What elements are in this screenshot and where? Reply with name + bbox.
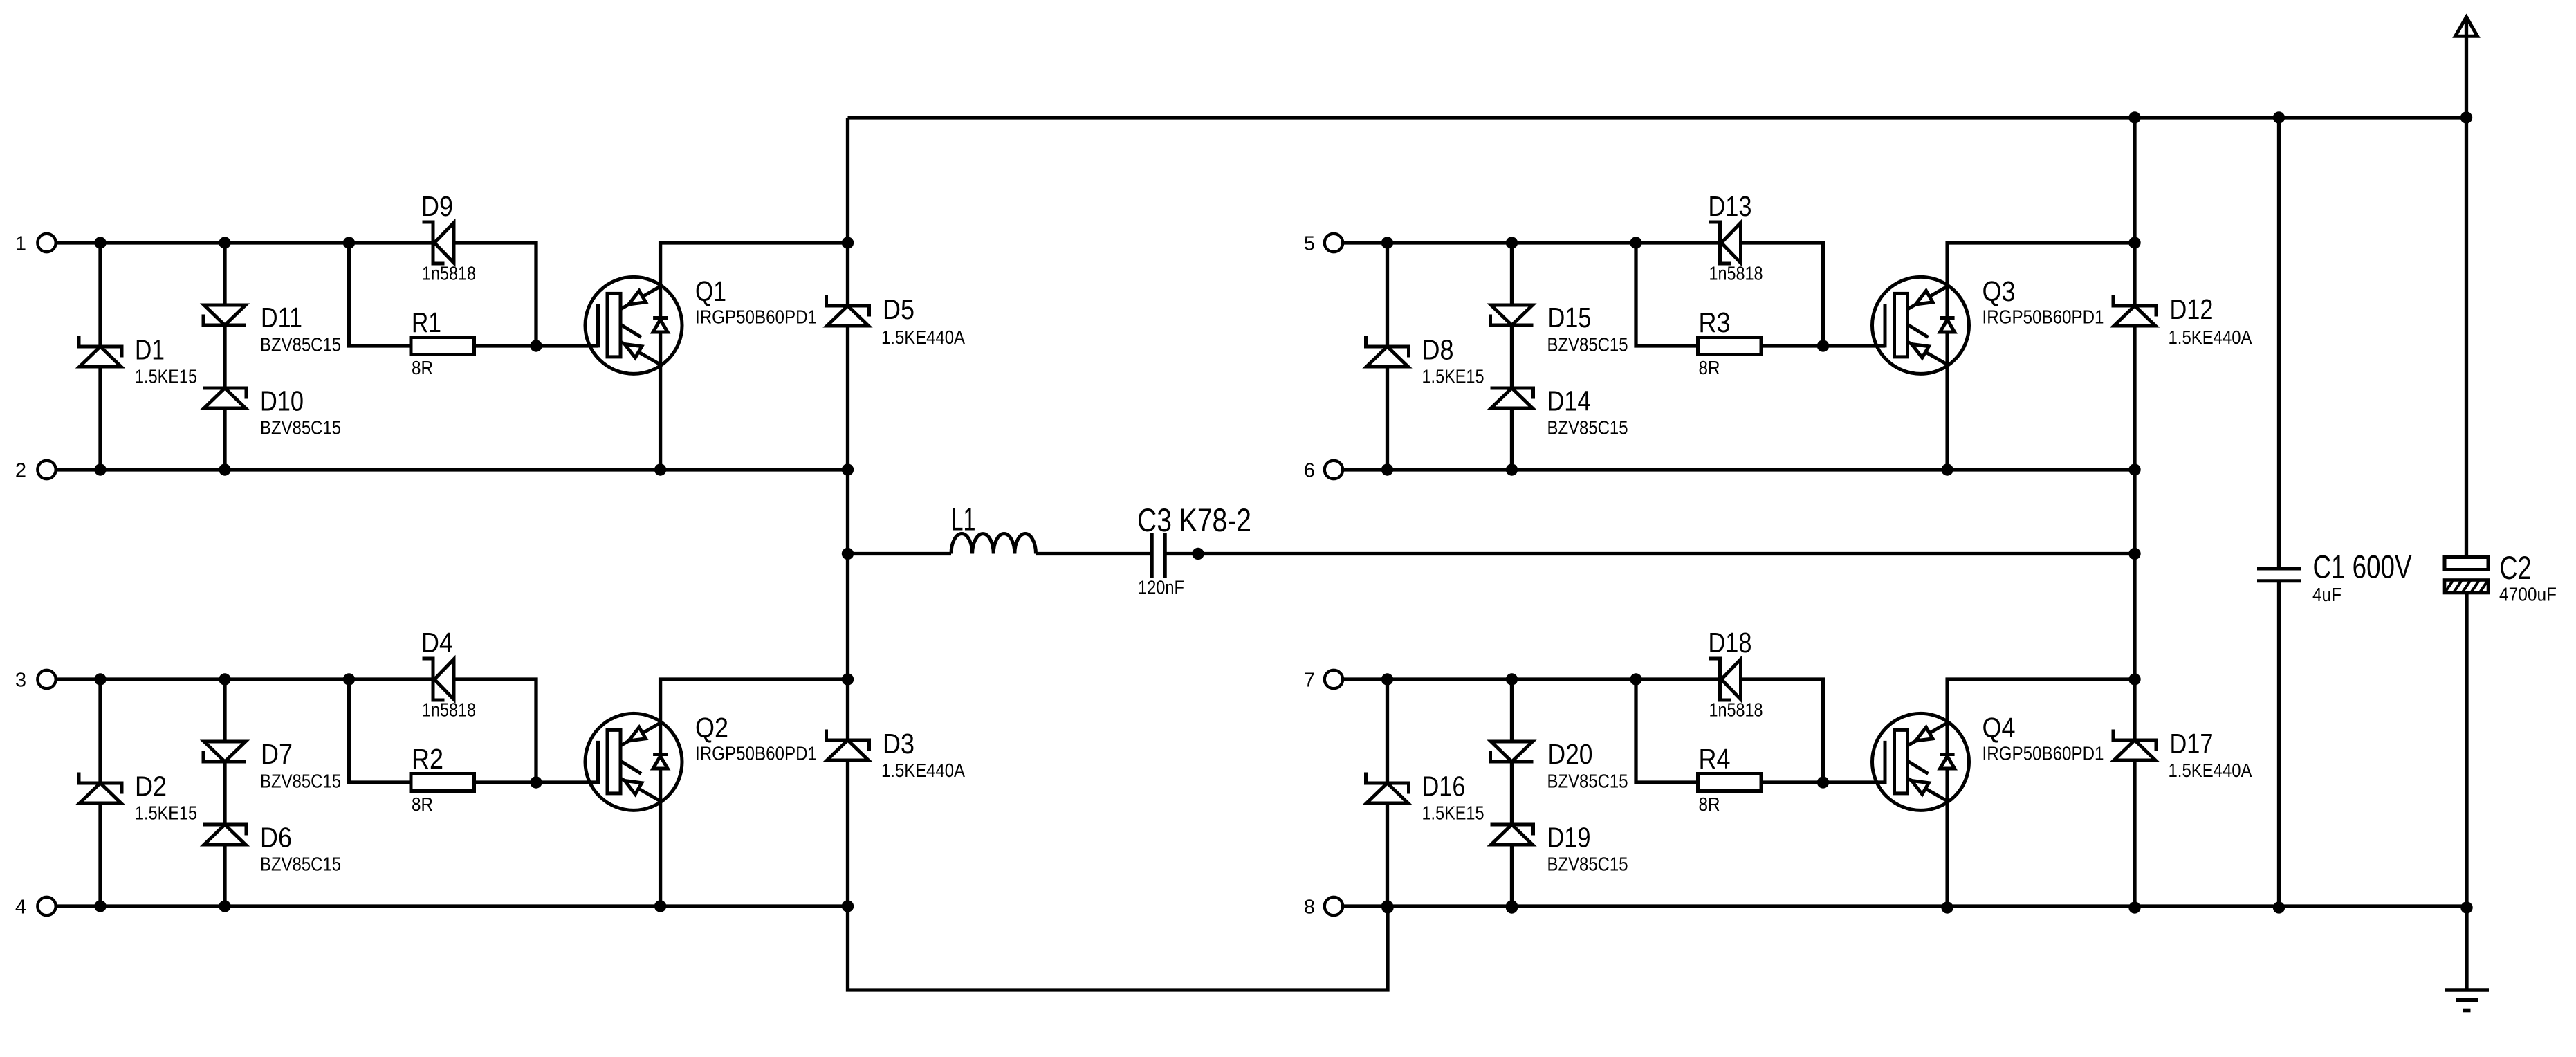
svg-text:1.5KE15: 1.5KE15	[135, 802, 197, 824]
wire C3 to right output node	[1165, 552, 2135, 555]
wire pin 7 rail	[1343, 677, 1718, 681]
junction D11 top	[219, 237, 230, 248]
wire gate lead of Q4	[1823, 780, 1886, 784]
wire top DC rail	[848, 116, 2467, 119]
svg-text:8R: 8R	[1699, 357, 1720, 378]
junction C1 at bottom rail	[2273, 901, 2285, 913]
wire pin 2 rail	[56, 468, 848, 471]
wire D1 top lead	[98, 243, 102, 347]
transistor Q2 IGBT	[585, 713, 682, 810]
terminal pin 3	[37, 670, 55, 688]
wire D8 top lead	[1386, 243, 1389, 347]
junction C3 right plate	[1192, 548, 1204, 560]
svg-text:D18: D18	[1709, 627, 1752, 659]
wire C1 top lead	[2277, 118, 2281, 569]
wire D14 bottom lead	[1510, 408, 1514, 470]
svg-text:D17: D17	[2170, 728, 2214, 760]
wire D16 top lead	[1386, 679, 1389, 783]
svg-text:Q2: Q2	[695, 712, 728, 744]
svg-text:D13: D13	[1709, 190, 1752, 222]
svg-text:BZV85C15: BZV85C15	[260, 854, 341, 875]
junction D6 bottom	[219, 900, 230, 912]
svg-text:D19: D19	[1547, 822, 1591, 854]
svg-text:1.5KE440A: 1.5KE440A	[881, 327, 965, 348]
resistor R2	[411, 774, 475, 791]
svg-text:1n5818: 1n5818	[1709, 263, 1763, 284]
wire R4 to gate node	[1761, 780, 1823, 784]
svg-text:D20: D20	[1548, 738, 1593, 770]
junction gate node Q1	[530, 340, 542, 351]
ground symbol	[2445, 990, 2489, 1011]
svg-text:Q1: Q1	[695, 275, 726, 307]
svg-text:8: 8	[1304, 897, 1315, 919]
TVS diode D16 1.5KE15	[1366, 773, 1409, 794]
wire gate lead of Q3	[1823, 344, 1886, 347]
power supply arrow symbol	[2456, 17, 2478, 37]
junction rail pin 4 at bus	[842, 900, 854, 912]
junction node B at right bus	[2128, 548, 2140, 560]
svg-text:L1: L1	[951, 501, 976, 537]
junction C2/ground at bottom rail	[2460, 901, 2472, 913]
wire Q4 collector	[1947, 679, 2135, 755]
wire branch to R2	[349, 679, 412, 782]
svg-text:BZV85C15: BZV85C15	[260, 417, 341, 439]
junction gate node Q3	[1817, 340, 1829, 351]
wire R2 to gate node	[475, 780, 537, 784]
TVS diode D17 1.5KE440A	[2113, 730, 2156, 751]
junction D10 bottom	[219, 463, 230, 475]
wire L1 to C3	[1036, 552, 1152, 555]
terminal pin 4	[37, 897, 55, 915]
wire right output bus upper	[2133, 118, 2136, 306]
svg-text:D2: D2	[135, 771, 167, 802]
svg-text:Q3: Q3	[1982, 275, 2016, 307]
zener diode D15 BZV85C15	[1491, 315, 1534, 326]
svg-text:4: 4	[15, 897, 26, 919]
inductor L1	[951, 534, 1036, 554]
wire D15 top lead	[1510, 243, 1514, 306]
svg-text:D4: D4	[421, 627, 453, 659]
wire branch to R4	[1636, 679, 1698, 782]
transistor Q4 IGBT	[1873, 713, 1969, 810]
wire Q3 emitter	[1945, 332, 1949, 470]
svg-text:1n5818: 1n5818	[1709, 699, 1763, 721]
wire output node to L1	[848, 552, 952, 555]
wire C2 top lead	[2465, 118, 2468, 558]
junction gate node Q4	[1817, 776, 1829, 788]
svg-text:C3 K78-2: C3 K78-2	[1137, 502, 1251, 538]
junction D8 bottom	[1381, 463, 1393, 475]
svg-text:5: 5	[1304, 233, 1315, 255]
svg-text:1n5818: 1n5818	[422, 263, 476, 284]
svg-text:8R: 8R	[412, 357, 433, 378]
svg-text:D12: D12	[2170, 293, 2214, 325]
junction R1 branch	[343, 237, 355, 248]
svg-text:7: 7	[1304, 670, 1315, 692]
svg-text:D11: D11	[261, 302, 302, 333]
svg-text:D15: D15	[1548, 302, 1592, 333]
wire left output bus middle	[846, 326, 849, 740]
junction right bus at top rail	[2128, 111, 2140, 123]
svg-text:BZV85C15: BZV85C15	[1547, 334, 1628, 356]
terminal pin 1	[37, 234, 55, 252]
svg-text:BZV85C15: BZV85C15	[260, 334, 341, 356]
wire between D20 and D19	[1510, 762, 1514, 825]
wire right output bus middle	[2133, 326, 2136, 740]
svg-text:C2: C2	[2500, 549, 2532, 586]
wire D4 to gate corner	[454, 679, 536, 782]
wire Q1 collector	[661, 243, 848, 318]
wire Q3 collector	[1947, 243, 2135, 318]
svg-text:1.5KE15: 1.5KE15	[1422, 366, 1484, 387]
terminal pin 7	[1325, 670, 1343, 688]
capacitor C3 K78-2 120nF	[1150, 533, 1154, 578]
terminal pin 5	[1325, 234, 1343, 252]
svg-text:4700uF: 4700uF	[2499, 584, 2557, 605]
junction Q2 collector at bus	[842, 673, 854, 685]
svg-text:D3: D3	[883, 728, 914, 760]
junction Q4 collector at bus	[2128, 673, 2140, 685]
junction rail pin 6 at bus	[2128, 463, 2140, 475]
wire Q1 emitter	[659, 332, 662, 470]
wire D11 top lead	[223, 243, 226, 306]
svg-text:D6: D6	[260, 822, 292, 854]
svg-text:D1: D1	[135, 334, 165, 366]
svg-text:D10: D10	[260, 385, 304, 417]
wire branch to R3	[1636, 243, 1698, 346]
capacitor C2 4700uF polarized	[2445, 558, 2488, 570]
svg-text:8R: 8R	[412, 793, 433, 815]
wire pin 3 rail	[56, 677, 432, 681]
wire D16 bottom lead	[1386, 803, 1389, 906]
wire pin 4 rail	[56, 904, 848, 908]
junction C1 at top rail	[2273, 111, 2285, 123]
wire R1 to gate node	[475, 344, 537, 347]
wire power arrow lead	[2465, 16, 2468, 118]
svg-text:1.5KE15: 1.5KE15	[135, 366, 197, 387]
TVS diode D12 1.5KE440A	[2113, 295, 2156, 317]
wire ground lead	[2465, 908, 2468, 990]
wire between D15 and D14	[1510, 325, 1514, 388]
junction R2 branch	[343, 673, 355, 685]
zener diode D10 BZV85C15	[203, 388, 246, 399]
junction Q3 emitter	[1941, 463, 1953, 475]
svg-text:IRGP50B60PD1: IRGP50B60PD1	[1982, 743, 2104, 764]
svg-text:120nF: 120nF	[1138, 577, 1184, 598]
wire D1 bottom lead	[98, 367, 102, 470]
wire D10 bottom lead	[223, 408, 226, 470]
terminal pin 6	[1325, 461, 1343, 479]
junction D20 top	[1506, 673, 1518, 685]
junction D16 top	[1381, 673, 1393, 685]
wire D6 bottom lead	[223, 845, 226, 906]
wire Q2 emitter	[659, 769, 662, 906]
wire D20 top lead	[1510, 679, 1514, 742]
junction Q1 collector at bus	[842, 237, 854, 248]
wire pin 1 rail	[56, 241, 432, 244]
svg-text:8R: 8R	[1699, 793, 1720, 815]
schottky diode D4	[423, 659, 445, 700]
svg-text:4uF: 4uF	[2312, 584, 2342, 605]
zener diode D19 BZV85C15	[1491, 825, 1534, 836]
junction D16 bottom	[1381, 900, 1393, 912]
zener diode D20 BZV85C15	[1491, 751, 1534, 762]
TVS diode D3 1.5KE440A	[827, 730, 870, 751]
wire right output bus lower	[2133, 760, 2136, 908]
svg-text:3: 3	[15, 670, 26, 692]
wire gate lead of Q1	[536, 344, 598, 347]
junction Q4 emitter	[1941, 901, 1953, 913]
svg-text:BZV85C15: BZV85C15	[1547, 417, 1628, 439]
svg-text:C1 600V: C1 600V	[2313, 549, 2413, 585]
resistor R3	[1698, 338, 1762, 355]
wire D8 bottom lead	[1386, 367, 1389, 470]
wire D9 to gate corner	[454, 243, 536, 346]
svg-text:IRGP50B60PD1: IRGP50B60PD1	[1982, 306, 2104, 328]
wire pin 5 rail	[1343, 241, 1718, 244]
junction Q1 emitter	[654, 463, 666, 475]
junction gate node Q2	[530, 776, 542, 788]
junction R3 branch	[1630, 237, 1641, 248]
svg-text:1.5KE440A: 1.5KE440A	[881, 760, 965, 781]
wire between D11 and D10	[223, 325, 226, 388]
junction rail pin 2 at bus	[842, 463, 854, 475]
wire left output bus upper	[846, 118, 849, 306]
wire C1 bottom lead	[2277, 581, 2281, 908]
terminal pin 2	[37, 461, 55, 479]
junction D7 top	[219, 673, 230, 685]
junction D2 bottom	[94, 900, 106, 912]
wire D18 to gate corner	[1741, 679, 1823, 782]
terminal pin 8	[1325, 897, 1343, 915]
wire D13 to gate corner	[1741, 243, 1823, 346]
junction R4 branch	[1630, 673, 1641, 685]
wire left output bus lower + bottom link	[848, 760, 1388, 990]
svg-text:D16: D16	[1422, 771, 1466, 802]
wire Q2 collector	[661, 679, 848, 755]
schottky diode D9	[423, 222, 445, 264]
svg-text:1.5KE440A: 1.5KE440A	[2169, 760, 2252, 781]
wire gate lead of Q2	[536, 780, 598, 784]
wire D7 top lead	[223, 679, 226, 742]
transistor Q3 IGBT	[1873, 277, 1969, 374]
svg-text:BZV85C15: BZV85C15	[1547, 771, 1628, 792]
svg-text:IRGP50B60PD1: IRGP50B60PD1	[695, 743, 817, 764]
junction node A at left bus	[842, 548, 854, 560]
svg-text:D8: D8	[1422, 334, 1454, 366]
svg-text:1n5818: 1n5818	[422, 699, 476, 721]
zener diode D6 BZV85C15	[203, 825, 246, 836]
svg-text:R3: R3	[1699, 306, 1731, 338]
TVS diode D2 1.5KE15	[79, 773, 122, 794]
wire C2 bottom lead	[2465, 593, 2468, 908]
junction link at pin 8 rail	[1381, 901, 1393, 913]
svg-text:D5: D5	[883, 293, 914, 325]
svg-text:2: 2	[15, 460, 26, 482]
junction D19 bottom	[1506, 900, 1518, 912]
zener diode D11 BZV85C15	[203, 315, 246, 326]
junction D1 top	[94, 237, 106, 248]
junction Q2 emitter	[654, 900, 666, 912]
wire D2 bottom lead	[98, 803, 102, 906]
TVS diode D5 1.5KE440A	[827, 295, 870, 317]
wire D2 top lead	[98, 679, 102, 783]
wire Q4 emitter	[1945, 769, 1949, 906]
TVS diode D1 1.5KE15	[79, 336, 122, 358]
wire between D7 and D6	[223, 762, 226, 825]
capacitor C1 600V 4uF	[2257, 567, 2301, 571]
wire R3 to gate node	[1761, 344, 1823, 347]
junction power arrow / C2 at top rail	[2460, 111, 2472, 123]
svg-text:BZV85C15: BZV85C15	[260, 771, 341, 792]
svg-text:6: 6	[1304, 460, 1315, 482]
wire branch to R1	[349, 243, 412, 346]
resistor R1	[411, 338, 475, 355]
wire D19 bottom lead	[1510, 845, 1514, 906]
junction D15 top	[1506, 237, 1518, 248]
schottky diode D13	[1709, 222, 1731, 264]
junction D19 bottom	[1506, 901, 1518, 913]
junction D8 top	[1381, 237, 1393, 248]
svg-text:1.5KE15: 1.5KE15	[1422, 802, 1484, 824]
svg-text:D14: D14	[1547, 385, 1591, 417]
svg-text:BZV85C15: BZV85C15	[1547, 854, 1628, 875]
junction D14 bottom	[1506, 463, 1518, 475]
svg-text:Q4: Q4	[1982, 712, 2016, 744]
junction right bus at bottom rail	[2128, 901, 2140, 913]
resistor R4	[1698, 774, 1762, 791]
svg-text:R1: R1	[412, 306, 441, 338]
TVS diode D8 1.5KE15	[1366, 336, 1409, 358]
svg-text:R4: R4	[1699, 743, 1731, 775]
junction D1 bottom	[94, 463, 106, 475]
wire pin 8 rail / bottom rail right	[1343, 904, 2467, 908]
junction Q3 collector at bus	[2128, 237, 2140, 248]
svg-text:IRGP50B60PD1: IRGP50B60PD1	[695, 306, 817, 328]
zener diode D14 BZV85C15	[1491, 388, 1534, 399]
transistor Q1 IGBT	[585, 277, 682, 374]
svg-text:D9: D9	[421, 190, 453, 222]
wire pin 6 rail	[1343, 468, 2135, 471]
svg-text:R2: R2	[412, 743, 443, 775]
zener diode D7 BZV85C15	[203, 751, 246, 762]
junction D2 top	[94, 673, 106, 685]
svg-text:1.5KE440A: 1.5KE440A	[2169, 327, 2252, 348]
svg-text:D7: D7	[261, 738, 293, 770]
svg-text:1: 1	[15, 233, 26, 255]
schottky diode D18	[1709, 659, 1731, 700]
